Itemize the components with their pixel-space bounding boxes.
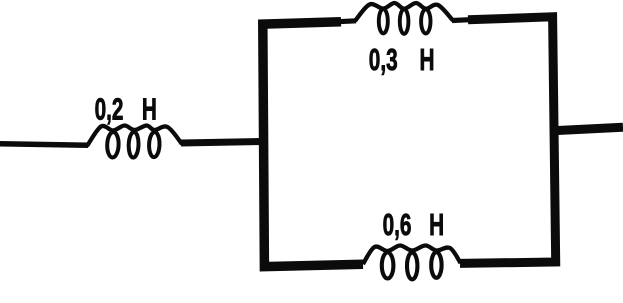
inductor L3 loop 3 [431,252,441,278]
wire: right portion of top rail, right bar, right portion of bottom rail [460,17,556,264]
value label 0,3 H [369,42,435,77]
wire: left input lead [0,144,88,145]
inductor L1 loop 2 [128,132,139,158]
value label 0,6 H [383,207,445,242]
inductor L2 loop 3 [421,9,430,33]
svg-text:0,2: 0,2 [95,91,124,126]
inductor L3 loop 2 [407,253,417,280]
inductor L2 loop 2 [400,9,409,34]
wire: thin stub into L2 left [338,18,356,24]
inductor L3 coil rail (0,6 H bottom branch) [363,245,461,264]
inductor L1 loop 3 [149,132,160,157]
inductor L1 coil rail (0,2 H series inductor) [87,125,182,146]
value label 0,2 H [95,91,157,126]
inductor L1 loop 1 [107,132,119,158]
wire: thin stub out of L2 right [452,17,470,23]
svg-text:0,6: 0,6 [383,207,412,242]
inductor L2 coil rail (0,3 H top branch) [355,3,453,21]
inductor L2 loop 1 [379,9,388,33]
svg-text:0,3: 0,3 [369,42,398,77]
svg-text:H: H [419,42,434,77]
wire: right output lead [550,127,623,131]
svg-text:H: H [142,91,157,126]
svg-text:H: H [429,207,444,242]
inductor L3 loop 1 [382,253,394,279]
node A: left branch junction / left side of loop rectangle with top-left and bottom-left corners [263,22,363,267]
wire: segment from L1 to left node [181,142,262,144]
